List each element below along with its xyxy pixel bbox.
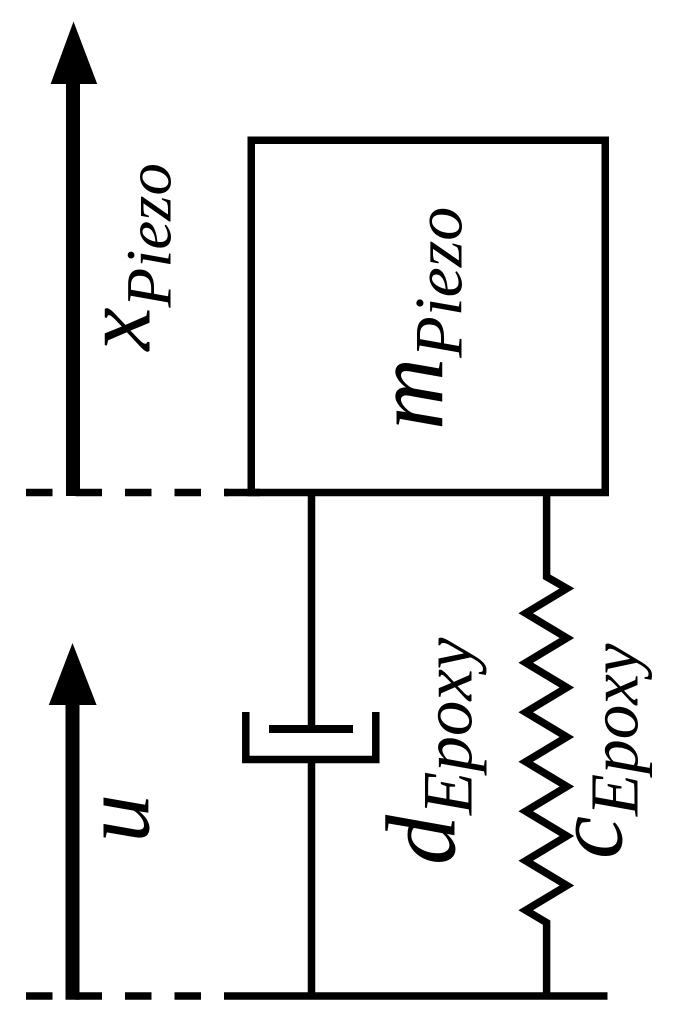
top plate line segment [225, 489, 260, 497]
spring c_Epoxy [526, 492, 567, 996]
damper rod lower [308, 759, 316, 996]
arrow x_Piezo shaft [66, 60, 80, 496]
ground line [225, 992, 608, 1000]
arrow x_Piezo head [51, 22, 98, 85]
svg-text:u: u [63, 794, 170, 843]
damper piston plate [269, 725, 353, 733]
arrow u head [49, 643, 97, 705]
mass m_Piezo block [251, 140, 605, 492]
damper cup [246, 712, 376, 760]
damper d_Epoxy rod upper [308, 492, 316, 733]
arrow u shaft [66, 700, 80, 1000]
dashed reference line bottom [26, 992, 225, 1000]
dashed reference line top [26, 489, 228, 497]
